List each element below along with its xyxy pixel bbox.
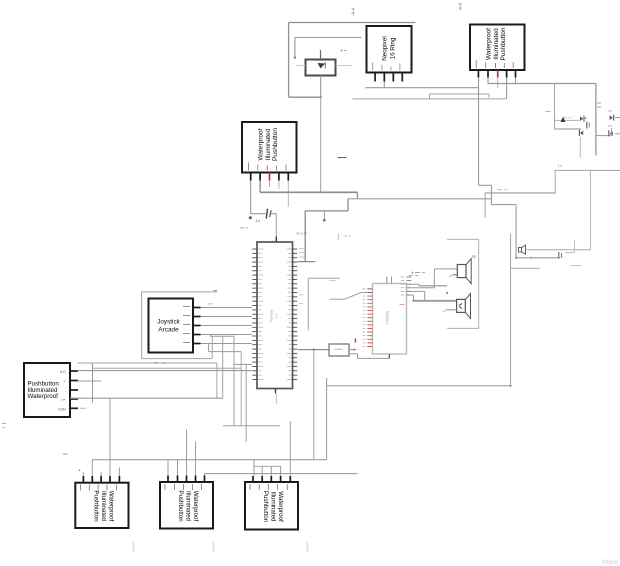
svg-text:12mm: 12mm <box>212 541 216 552</box>
pin LB1 V+ <box>62 398 79 402</box>
pin U2 top pins <box>387 277 392 284</box>
pin B3 2 <box>259 476 262 490</box>
capacitor C1 <box>266 209 271 219</box>
pin B1 5 <box>116 476 119 491</box>
pin B2 4 <box>192 476 195 491</box>
wire drop x222 <box>222 336 224 398</box>
svg-text:Pushbutton: Pushbutton <box>500 27 507 60</box>
wire riser to amp <box>327 378 511 460</box>
wire J1 pin5 to U1 <box>201 343 252 345</box>
wire data bus net <box>260 181 357 199</box>
wire B2 pin2 to bus <box>177 460 179 476</box>
wire long right horizontal <box>555 169 620 171</box>
svg-text:12mm: 12mm <box>306 541 310 552</box>
pin J1 3 <box>183 324 201 325</box>
pin B2 3 <box>183 476 186 491</box>
wire U2 DAC net A <box>411 284 448 294</box>
pin PB1 NO <box>513 62 516 78</box>
wire LB1 stub net <box>78 362 217 402</box>
wire drop x234 <box>223 336 280 425</box>
wire small speaker net <box>527 249 591 251</box>
wire PB1 V+ right rail <box>488 78 596 156</box>
svg-text:Pushbutton: Pushbutton <box>262 491 269 523</box>
wire amp down net <box>509 234 511 387</box>
wire bottom bus B <box>205 473 358 475</box>
wire B2 pin4 riser <box>195 442 197 476</box>
svg-text:Illuminated: Illuminated <box>265 128 272 160</box>
label C1 value 1u <box>240 218 260 228</box>
wire U1 row east <box>234 363 252 365</box>
svg-text:sp: sp <box>472 255 476 259</box>
pin J1 1 <box>183 306 201 307</box>
wire base lower <box>555 128 582 130</box>
svg-text:Waterproof: Waterproof <box>486 28 493 60</box>
wire J1 pin2 to U1 <box>201 316 252 318</box>
pin B3 4 <box>277 476 280 490</box>
pin B1 2 <box>89 476 92 491</box>
label U2 right names <box>409 274 419 277</box>
wire J1 pin3 to U1 <box>201 325 252 327</box>
pin U1 bottom <box>275 389 277 394</box>
label 5V net flag right <box>459 3 462 11</box>
wire right rail branch <box>554 84 556 130</box>
pin PB1 plus <box>495 63 498 89</box>
wire B3 minibus <box>254 460 281 476</box>
transistor Q2 <box>579 130 583 136</box>
pin row U1 left <box>252 249 263 380</box>
joystick arcade J1 <box>149 299 194 353</box>
pin PB1 V+ <box>485 62 488 78</box>
svg-text:Waterproof: Waterproof <box>192 491 199 522</box>
wire ground mesh <box>430 94 489 99</box>
wire LB1 plus branch <box>78 380 102 382</box>
svg-text:Pushbutton: Pushbutton <box>93 490 100 522</box>
svg-text:+: + <box>64 380 66 384</box>
svg-text:3.2: 3.2 <box>275 314 279 319</box>
capacitor C5 marks <box>515 252 562 259</box>
pin LB1 COM <box>58 407 86 411</box>
svg-text:1u: 1u <box>558 163 562 168</box>
pin B2 5 <box>201 476 204 491</box>
wire B1 pin4 up <box>109 472 111 476</box>
svg-text:Neopixel: Neopixel <box>382 36 389 61</box>
svg-text:Waterproof: Waterproof <box>28 393 59 400</box>
speaker SP2 <box>457 294 471 319</box>
pin J1 4 <box>183 333 201 334</box>
junction stub <box>323 211 326 222</box>
wire data bus east <box>348 198 492 200</box>
svg-text:V+: V+ <box>62 398 66 402</box>
pin B3 1 <box>250 476 253 490</box>
wire stub left of cluster <box>565 240 581 266</box>
svg-text:Waterproof: Waterproof <box>108 491 115 522</box>
pushbutton B2 waterproof illuminated <box>160 482 213 529</box>
wire PB2 COM to capacitor <box>249 181 266 220</box>
pin row U2 left <box>363 289 373 347</box>
wire J1 drop B <box>209 344 242 426</box>
pin PB2 V+ <box>257 165 260 181</box>
wire drop x110 to B1 <box>109 398 111 472</box>
wire loop around joystick <box>142 290 218 358</box>
svg-text:YX5300: YX5300 <box>385 310 390 325</box>
label 5V net flag <box>352 8 355 16</box>
wire B1 pin1 hook <box>79 469 84 476</box>
wire mid horizontal net <box>485 189 556 217</box>
svg-text:Waterproof: Waterproof <box>277 491 284 522</box>
pin neopixel OUT <box>400 64 403 82</box>
wire speaker return vertical <box>589 170 591 249</box>
wire D1 side leads <box>296 65 352 67</box>
wire Q cluster link <box>596 135 612 137</box>
pushbutton LB1 illuminated waterproof <box>24 363 70 417</box>
svg-text:Teensy: Teensy <box>269 310 274 323</box>
wire U1 right pin net A <box>298 261 316 263</box>
pin B1 4 <box>107 476 110 491</box>
wire 5V top bus <box>289 23 416 98</box>
svg-text:12mm: 12mm <box>132 541 136 552</box>
wire B1 pin2 to bus <box>91 460 93 476</box>
svg-text:fritzing: fritzing <box>602 560 618 566</box>
wire U1 right pin net B <box>308 278 340 330</box>
svg-text:Waterproof: Waterproof <box>258 128 265 160</box>
label red pin mark <box>354 339 357 344</box>
pin PB2 NO <box>286 165 289 207</box>
pin PB2 COM <box>248 163 251 181</box>
resistor R1 <box>329 344 349 356</box>
pin PB1 minus <box>504 63 507 78</box>
pin row U2 right <box>400 277 412 305</box>
pin B3 3 <box>268 476 271 490</box>
svg-text:Illuminated: Illuminated <box>493 28 500 60</box>
wire amp right stub <box>511 267 541 269</box>
wire B1 pin5 up <box>118 468 120 477</box>
wire cross above B3 <box>245 364 247 441</box>
pushbutton PB2 waterproof illuminated <box>242 122 297 173</box>
transistor Q4 <box>608 126 620 137</box>
pin LB1 minus <box>64 389 78 393</box>
pin neopixel GND <box>372 63 375 82</box>
wire power mesh <box>353 98 507 100</box>
svg-text:-: - <box>64 389 65 393</box>
svg-text:Illuminated: Illuminated <box>185 491 192 521</box>
sound module U2 <box>373 284 407 355</box>
transistor Q3 <box>608 111 620 121</box>
pin B2 1 <box>165 476 168 491</box>
wire U2 to speaker2 thick <box>412 300 456 302</box>
wire PB1 minus drop <box>506 78 508 99</box>
neopixel 16 ring U3 <box>367 26 412 73</box>
svg-text:Illuminated: Illuminated <box>270 492 277 522</box>
microcontroller U1 <box>257 242 293 389</box>
label bus mark <box>338 157 347 158</box>
wire stub near U2 top <box>338 234 351 241</box>
svg-text:Illuminated: Illuminated <box>100 491 107 521</box>
svg-text:Pushbutton: Pushbutton <box>177 490 184 522</box>
pin D1 anode <box>320 50 322 60</box>
label D1 value <box>341 50 347 52</box>
wire right rail lower <box>554 170 556 193</box>
svg-text:COM: COM <box>58 407 66 411</box>
pushbutton B3 waterproof illuminated <box>245 482 298 530</box>
svg-text:Arcade: Arcade <box>158 327 179 334</box>
wire bottom bus A <box>63 454 327 460</box>
diode D1 <box>306 60 336 76</box>
svg-text:Pushbutton: Pushbutton <box>272 128 279 161</box>
wire U1 bottom pin drop <box>275 394 277 405</box>
pin SP2 minus stub <box>443 310 457 312</box>
wire LB1 NO to U1 <box>78 370 252 372</box>
pushbutton B1 waterproof illuminated <box>75 483 128 528</box>
wire Q2 emitter down <box>579 137 581 158</box>
speaker icon small <box>519 245 526 254</box>
pin LB1 N.O <box>60 370 78 374</box>
wire U2 net C <box>411 291 424 300</box>
label U1 outside pin names <box>299 248 305 304</box>
wire PB1 COM loop to speaker net <box>479 78 561 258</box>
wire J1 pin1 to U1 <box>201 304 252 308</box>
pin B2 2 <box>174 476 177 491</box>
label U2 left red mark <box>354 338 357 342</box>
wire neopixel VCC branch <box>294 38 362 59</box>
pin B3 5 <box>287 476 290 490</box>
pin J1 2 <box>183 315 201 316</box>
wire D1 to data bus <box>320 97 322 192</box>
pin U1 top <box>275 237 277 243</box>
pin U2 bottom <box>388 354 390 358</box>
wire R1 out to U2 bottom pin <box>349 354 389 359</box>
wire U1 to resistor R1 <box>298 349 330 351</box>
net arrow marker <box>561 117 566 122</box>
wire J1 pin4 to U1 <box>201 334 252 336</box>
wire B3 pin4 up <box>280 466 282 476</box>
wire U2 net D <box>411 295 413 301</box>
pin PB1 COM <box>476 60 479 78</box>
svg-text:4u a m: 4u a m <box>297 232 308 236</box>
pin B1 3 <box>98 476 101 491</box>
svg-text:N.O: N.O <box>60 370 66 374</box>
wire R1 node down to bus <box>313 348 315 459</box>
wire speaker frame <box>447 239 479 328</box>
label left margin tick <box>2 423 6 428</box>
label cluster values <box>546 103 602 112</box>
wire B2 pin5 to bus B <box>204 474 206 476</box>
pin LB1 plus <box>64 380 78 384</box>
pin neopixel V <box>391 67 394 82</box>
wire J1 drop A <box>210 335 234 337</box>
wire diagonal to U2 <box>329 280 367 299</box>
wire B2 pin1 to bus <box>167 460 169 476</box>
label U2 top value <box>412 272 425 274</box>
wire U2 to speaker1 <box>411 269 457 288</box>
wire neopixel IN net <box>366 82 479 88</box>
pin neopixel IN <box>382 65 385 82</box>
wire under joystick A <box>93 367 242 369</box>
wire capacitor to U1 top pin <box>271 214 276 242</box>
wire R1 out upper <box>349 349 356 351</box>
pin row U1 right <box>287 249 297 380</box>
wire PB1 NO drop <box>515 78 517 84</box>
wire B3 pin5 riser <box>289 421 291 476</box>
svg-text:1u: 1u <box>256 218 260 223</box>
wire B3 pin3 up <box>270 466 272 476</box>
pin PB2 plus <box>267 166 270 188</box>
wire base upper <box>555 117 580 120</box>
pin B1 1 <box>80 476 83 491</box>
pushbutton PB1 waterproof illuminated <box>470 25 525 71</box>
svg-text:Joystick: Joystick <box>157 319 181 326</box>
capacitor C4 <box>587 122 589 129</box>
wire B1 pin3 up <box>100 472 102 476</box>
wire B2 pin3 long riser <box>186 430 188 476</box>
speaker SP1 <box>457 255 475 284</box>
pin D1 cathode wire <box>320 76 322 99</box>
transistor Q1 <box>580 116 587 122</box>
svg-text:16 Ring: 16 Ring <box>389 37 396 59</box>
wire step to U1 right pin <box>305 199 348 262</box>
wire B3 pin2 up <box>261 466 263 476</box>
wire LB1 V+ long <box>70 397 223 399</box>
pin SP1 minus stub <box>449 275 457 277</box>
pin PB2 minus <box>276 166 279 189</box>
pin J1 5 <box>183 342 201 343</box>
